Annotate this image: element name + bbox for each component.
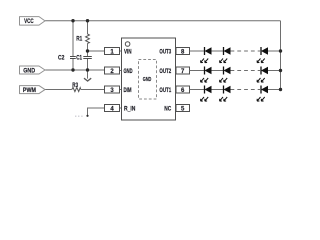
svg-text:OUT2: OUT2 (159, 69, 171, 75)
svg-text:GND: GND (124, 69, 133, 75)
junction dot bus row 1 (OUT3) (279, 49, 282, 52)
wire stub pin4 to IC (120, 107, 122, 109)
svg-text:NC: NC (164, 107, 172, 113)
pin 7 box (176, 67, 190, 75)
wire to LED D2 (212, 50, 224, 52)
wire GND rail (45, 69, 105, 71)
op-amp U1 IC body (122, 38, 176, 120)
wire pin to LED D1 (190, 50, 205, 52)
junction dot GND/C1 (86, 68, 89, 71)
wire LED to bus (268, 50, 281, 52)
svg-text:VIN: VIN (124, 49, 132, 55)
wire C2 branch from VCC (72, 21, 74, 57)
svg-text:C1: C1 (76, 56, 82, 62)
junction dot bus row 2 (OUT2) (279, 69, 282, 72)
wire endpoint pin4 (86, 115, 88, 117)
svg-text:PWM: PWM (23, 88, 36, 94)
LED string row 3 (OUT1) (190, 86, 283, 102)
LED D4 (201, 67, 212, 83)
svg-text:OUT1: OUT1 (159, 88, 171, 94)
port flag GND (20, 66, 46, 74)
ground arrow (84, 78, 91, 81)
pin-1 marker circle (125, 42, 130, 47)
wire R1 bottom to node VIN (87, 43, 89, 56)
pin 6 box (176, 86, 190, 94)
capacitor C1 (76, 56, 92, 62)
svg-text:GND: GND (23, 68, 36, 74)
wire LED to bus (268, 89, 281, 91)
svg-text:OUT3: OUT3 (159, 49, 171, 55)
junction dot GND/C2 (71, 68, 74, 71)
junction dot VCC/C2 (71, 19, 74, 22)
LED D9 (257, 86, 268, 102)
LED D2 (220, 47, 231, 63)
LED D5 (220, 67, 231, 83)
wire PWM to R3 (45, 89, 72, 91)
wire VCC top rail (45, 20, 281, 22)
port flag PWM (20, 86, 46, 94)
wire C1 bottom to GND rail (87, 59, 89, 71)
LED string row 1 (OUT3) (190, 47, 283, 63)
pin 4 box (105, 105, 120, 113)
dashed wire to LED D3 (231, 50, 261, 52)
wire LED anode bus (280, 21, 282, 90)
junction dot bus row 3 (OUT1) (279, 88, 282, 91)
LED D3 (257, 47, 268, 63)
wire R3 to pin 3 (81, 89, 105, 91)
pin 2 box (105, 67, 120, 75)
wire GND stub to ground arrow (87, 70, 89, 79)
junction dot VCC/R1 (86, 19, 89, 22)
resistor R3 (72, 83, 81, 91)
svg-text:R1: R1 (76, 37, 83, 43)
pin 1 box (105, 48, 120, 56)
wire C2 bottom to GND rail (72, 59, 74, 71)
LED string row 2 (OUT2) (190, 67, 283, 83)
wire LED to bus (268, 70, 281, 72)
wire pin to LED D7 (190, 89, 205, 91)
wire node VIN to pin 1 (88, 50, 105, 52)
dashed wire to LED D9 (231, 89, 261, 91)
faint marks near pin4 wire (75, 116, 83, 117)
svg-text:VCC: VCC (24, 19, 34, 25)
junction node VIN (86, 49, 89, 52)
svg-text:R3: R3 (72, 83, 78, 89)
pin 5 box (176, 105, 190, 113)
wire to LED D5 (212, 70, 224, 72)
LED D1 (201, 47, 212, 63)
capacitor C2 (58, 56, 76, 62)
wire stub pin2 to IC (120, 70, 122, 72)
pin 3 box (105, 86, 120, 94)
wire pin to LED D4 (190, 70, 205, 72)
wire stub pin1 to IC (120, 50, 122, 52)
LED D6 (257, 67, 268, 83)
svg-text:C2: C2 (58, 56, 65, 62)
LED D8 (220, 86, 231, 102)
pin 8 box (176, 48, 190, 56)
wire to LED D8 (212, 89, 224, 91)
dashed wire to LED D6 (231, 70, 261, 72)
svg-text:GND: GND (143, 77, 152, 83)
svg-text:R_IN: R_IN (124, 107, 135, 113)
resistor R1 (76, 34, 89, 43)
LED D7 (201, 86, 212, 102)
port flag VCC (20, 17, 46, 26)
wire pin 4 R_IN stub (88, 108, 105, 116)
thermal pad GND dashed box (139, 60, 157, 100)
wire stub pin3 to IC (120, 89, 122, 91)
svg-text:DIM: DIM (124, 88, 132, 94)
wire R1 top stub (87, 21, 89, 34)
